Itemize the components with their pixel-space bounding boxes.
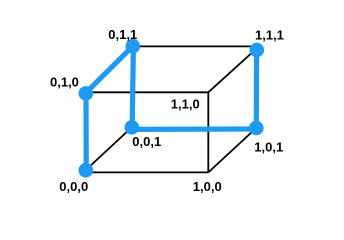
- node 1,1,1: [249, 43, 264, 58]
- wire edge 100-101 (black diagonal): [208, 128, 256, 172]
- node 1,0,1: [249, 121, 264, 136]
- wire edge 000-001 (black diagonal): [86, 127, 132, 170]
- svg-text:1,0,1: 1,0,1: [254, 140, 283, 155]
- svg-text:1,0,0: 1,0,0: [193, 179, 222, 194]
- svg-text:0,0,1: 0,0,1: [132, 134, 161, 149]
- wire edge 010-110 (front top, black): [86, 91, 209, 93]
- node 0,0,1: [125, 120, 140, 135]
- svg-text:1,1,0: 1,1,0: [171, 97, 200, 112]
- wire edge 001-101 (blue path, horizontal): [132, 126, 256, 132]
- node 0,0,0: [79, 163, 94, 178]
- wire edge 000-010 (blue path, left vertical): [83, 93, 88, 170]
- svg-text:1,1,1: 1,1,1: [255, 28, 284, 43]
- svg-text:0,0,0: 0,0,0: [59, 179, 88, 194]
- wire edge 101-111 (blue path, right vertical): [254, 50, 260, 128]
- node 0,1,1: [126, 39, 141, 54]
- wire edge 110-111 (black diagonal): [208, 50, 255, 93]
- svg-text:0,1,1: 0,1,1: [108, 27, 137, 42]
- node 0,1,0: [79, 86, 94, 101]
- wire edge 000-100 (front bottom, black): [86, 171, 209, 173]
- wire edge 010-011 (blue path, diagonal): [86, 46, 133, 92]
- wire edge 110-100 (hidden vertical, black): [207, 92, 209, 172]
- wire edge 011-001 (blue path, vertical): [132, 46, 133, 127]
- wire edge 011-111 (top back, black): [133, 45, 257, 47]
- svg-text:0,1,0: 0,1,0: [50, 75, 79, 90]
